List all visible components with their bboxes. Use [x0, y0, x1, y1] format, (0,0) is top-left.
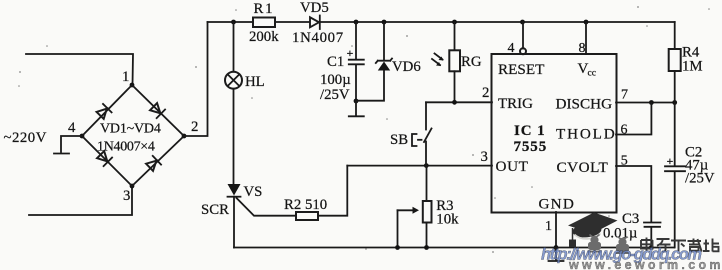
svg-text:3: 3: [123, 188, 130, 204]
wire R2 to OUT line: [318, 166, 347, 216]
watermark chinese site name: [641, 238, 719, 252]
resistor R1: [253, 18, 275, 28]
svg-text:CVOLT: CVOLT: [557, 159, 609, 176]
TRIG pin2 wire: [426, 101, 492, 103]
watermark bug characters: [588, 235, 630, 254]
svg-text:GND: GND: [539, 196, 576, 213]
IC1 7555 box: [492, 54, 617, 213]
svg-text:OUT: OUT: [496, 158, 529, 175]
thyristor VS (SCR): [228, 184, 241, 196]
svg-text:2: 2: [191, 119, 198, 135]
svg-text:VD1~VD4: VD1~VD4: [100, 122, 161, 137]
top rail: [208, 21, 675, 23]
capacitor C3: [644, 222, 661, 224]
svg-text:DISCHG: DISCHG: [556, 96, 613, 113]
node 2: [182, 134, 187, 139]
wire node3 to AC bottom-left: [29, 186, 132, 215]
pin 6 wire: [616, 103, 651, 135]
diode VD2 bottom-left edge: [96, 150, 112, 166]
junction dots top rail: [231, 20, 236, 25]
svg-text:/25V: /25V: [685, 171, 715, 187]
svg-text:HL: HL: [245, 74, 265, 90]
SCR gate wire: [237, 198, 297, 216]
AC terminal at node 4: [61, 136, 82, 152]
svg-text:1: 1: [545, 219, 552, 234]
svg-text:3: 3: [481, 149, 488, 165]
ground under pin1: [554, 245, 559, 250]
svg-text:1M: 1M: [682, 59, 703, 75]
svg-text:VD5: VD5: [300, 0, 329, 16]
diode VD1 top-left edge: [96, 104, 112, 120]
svg-text:10k: 10k: [436, 212, 459, 228]
svg-text:1N4007: 1N4007: [292, 30, 344, 46]
bridge edge 3-2: [132, 136, 184, 186]
capacitor C1: [355, 22, 357, 59]
R3 wiper arrow: [398, 209, 414, 211]
pin 1 wire: [555, 212, 557, 248]
svg-text:cc: cc: [588, 69, 596, 79]
node 3: [130, 184, 135, 189]
pin 8: [585, 22, 587, 54]
svg-text:7555: 7555: [514, 139, 548, 155]
potentiometer R3: [426, 166, 428, 201]
zener VD6: [383, 22, 385, 60]
diode VD5: [310, 17, 319, 27]
svg-text:6: 6: [621, 123, 628, 138]
svg-text:4: 4: [508, 41, 515, 56]
resistor R2: [296, 212, 318, 220]
resistor R4: [674, 22, 676, 49]
bridge edge 1-2: [132, 85, 184, 136]
svg-text:100µ: 100µ: [320, 72, 351, 88]
svg-text:RESET: RESET: [498, 61, 545, 78]
pin 5 wire: [616, 166, 651, 222]
pin 7 wire: [616, 102, 675, 104]
lamp HL: [233, 22, 235, 72]
bridge edge 4-1: [82, 85, 132, 136]
svg-text:8: 8: [579, 41, 586, 56]
svg-text:TRIG: TRIG: [498, 96, 533, 112]
ground under C1: [354, 99, 359, 104]
pin 4 with bubble: [522, 22, 524, 49]
bottom rail: [234, 247, 674, 249]
svg-text:/25V: /25V: [320, 87, 350, 103]
photoresistor RG: [454, 22, 456, 50]
svg-text:C1: C1: [327, 54, 344, 70]
node 4: [80, 134, 85, 139]
svg-text:200k: 200k: [249, 29, 279, 45]
svg-text:VS: VS: [244, 184, 263, 200]
svg-text:IC 1: IC 1: [514, 123, 546, 139]
svg-text:2: 2: [482, 85, 489, 101]
node 1: [130, 83, 135, 88]
svg-text:5: 5: [621, 154, 628, 169]
svg-text:SB: SB: [390, 132, 408, 148]
svg-text:~220V: ~220V: [4, 130, 47, 146]
svg-text:www.eeworm.com: www.eeworm.com: [568, 258, 722, 270]
svg-text:4: 4: [68, 120, 76, 136]
svg-text:7: 7: [621, 88, 628, 103]
svg-text:R2 510: R2 510: [284, 197, 327, 213]
svg-text:+: +: [347, 46, 354, 60]
svg-text:1: 1: [122, 69, 129, 85]
svg-text:R1: R1: [254, 1, 275, 17]
OUT pin3 wire: [347, 165, 492, 167]
wire AC top-left to node 1: [26, 54, 133, 85]
wire node 2 to top rail: [184, 22, 208, 136]
svg-text:RG: RG: [461, 54, 482, 70]
svg-text:1N4007×4: 1N4007×4: [97, 140, 155, 155]
diode VD4 top-right edge: [149, 102, 165, 118]
svg-text:SCR: SCR: [201, 202, 229, 218]
light arrows: [432, 54, 443, 66]
capacitor C2: [674, 103, 676, 166]
bridge edge 4-3: [82, 136, 132, 186]
svg-text:THOLD: THOLD: [556, 126, 616, 143]
switch SB: [425, 102, 427, 129]
watermark cap logo: [568, 213, 618, 248]
diode VD3 bottom-right edge: [145, 156, 161, 172]
svg-text:VD6: VD6: [392, 59, 421, 75]
svg-text:+: +: [667, 154, 674, 168]
